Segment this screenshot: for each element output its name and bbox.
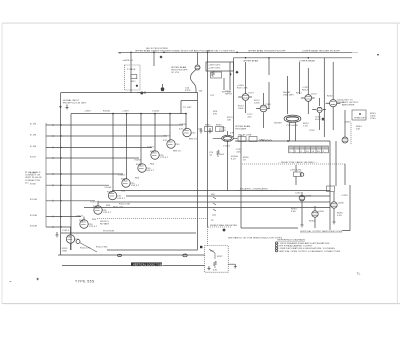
tube V6 bbox=[138, 164, 146, 173]
delay line network components bbox=[238, 137, 246, 142]
wire oval connections bbox=[213, 131, 238, 191]
svg-text:V173: V173 bbox=[248, 93, 254, 95]
node junction dots on bus bbox=[130, 52, 379, 59]
svg-text:UPPER BEAM: UPPER BEAM bbox=[235, 125, 250, 128]
label oval bbox=[274, 123, 298, 128]
svg-text:TYPE 555: TYPE 555 bbox=[75, 279, 94, 283]
wire short drop x154 bbox=[153, 52, 155, 66]
svg-text:R24: R24 bbox=[92, 219, 97, 221]
small box right R244 bbox=[352, 110, 366, 120]
svg-text:B .2M: B .2M bbox=[30, 134, 36, 136]
svg-text:VERTICAL OPEN OUTPUT & FEEDBA: VERTICAL OPEN OUTPUT & FEEDBACK CONNECTO… bbox=[279, 250, 341, 253]
svg-text:V1013: V1013 bbox=[62, 230, 70, 232]
transistor Q295 bbox=[331, 202, 337, 208]
tube V214 bbox=[301, 95, 315, 102]
svg-text:C1040: C1040 bbox=[152, 111, 160, 113]
svg-text:TRIG AMP: TRIG AMP bbox=[235, 128, 247, 131]
ganged dash link bbox=[97, 218, 208, 220]
page top edge bbox=[2, 22, 400, 24]
tube V183 bbox=[256, 105, 270, 112]
wire right of header bbox=[224, 62, 230, 90]
termination resistor row bbox=[198, 127, 224, 132]
svg-text:POSITION: POSITION bbox=[103, 231, 115, 233]
wire drop to dashed box bbox=[130, 52, 132, 92]
pot circle beside V1 bbox=[76, 240, 80, 244]
label right top cluster bbox=[342, 100, 359, 107]
filled square node bbox=[200, 246, 202, 248]
svg-text:Q294: Q294 bbox=[318, 211, 324, 213]
svg-text:220: 220 bbox=[147, 168, 152, 170]
transistor Q replacing bbox=[300, 173, 304, 177]
svg-text:V1083: V1083 bbox=[163, 136, 171, 138]
wire matrix row lines to tubes bbox=[71, 125, 184, 227]
svg-text:47K: 47K bbox=[213, 114, 218, 116]
label clusters panel A bbox=[225, 85, 294, 131]
svg-text:.005: .005 bbox=[236, 152, 241, 154]
wire second header line bbox=[234, 57, 353, 59]
svg-text:LINE DRV: LINE DRV bbox=[283, 95, 294, 97]
node dot bbox=[287, 140, 289, 142]
svg-text:R1121 2M: R1121 2M bbox=[119, 204, 130, 206]
svg-text:DELAY LINE: DELAY LINE bbox=[238, 134, 252, 137]
svg-text:R297: R297 bbox=[217, 256, 223, 258]
cascade right-side value labels bbox=[75, 133, 196, 242]
svg-text:R163: R163 bbox=[136, 164, 142, 166]
svg-text:TO CRT: TO CRT bbox=[183, 107, 192, 109]
tube V7 bbox=[151, 151, 159, 160]
svg-text:+350V: +350V bbox=[84, 111, 91, 113]
wire verticals mid bbox=[241, 135, 330, 230]
svg-text:V1023: V1023 bbox=[76, 216, 84, 218]
resistor R21 zigzag bbox=[212, 71, 215, 77]
svg-text:220: 220 bbox=[117, 196, 122, 198]
svg-text:V1033: V1033 bbox=[90, 202, 98, 204]
svg-text:R1040: R1040 bbox=[103, 111, 111, 113]
inductor bumps bbox=[260, 140, 272, 141]
svg-text:LOWR DECORATORS & REGULATORS,: LOWR DECORATORS & REGULATORS, VOLTAGES bbox=[279, 247, 336, 250]
svg-text:R212: R212 bbox=[296, 93, 302, 95]
tube V2 bbox=[80, 220, 88, 229]
svg-text:Q295: Q295 bbox=[338, 203, 344, 205]
svg-text:B .1M: B .1M bbox=[30, 123, 36, 125]
node riser dots bbox=[112, 113, 187, 115]
svg-text:UPP B HEADLAMPED OUTPUT: UPP B HEADLAMPED OUTPUT bbox=[279, 245, 314, 248]
small ellipse on bottom bus bbox=[118, 254, 122, 256]
svg-text:V1093: V1093 bbox=[179, 124, 187, 126]
node dot in box bbox=[359, 113, 361, 115]
svg-text:B .5M: B .5M bbox=[30, 146, 36, 148]
small cluster on divider bbox=[209, 111, 218, 157]
svg-text:UPPER BEAM SWEEP TRIGGER SIGNA: UPPER BEAM SWEEP TRIGGER SIGNAL SELECTOR… bbox=[135, 49, 210, 52]
svg-text:470: 470 bbox=[179, 129, 184, 131]
tube V3 bbox=[94, 206, 102, 215]
svg-text:B 2M: B 2M bbox=[30, 172, 36, 174]
label clusters panel B bbox=[296, 87, 345, 132]
svg-text:R261: R261 bbox=[205, 125, 211, 127]
svg-text:P GATE: P GATE bbox=[127, 68, 136, 71]
wire outer box top edge bbox=[61, 93, 198, 250]
label transistors bbox=[291, 193, 348, 223]
note line 2 bbox=[275, 245, 277, 247]
row input wires with labels bbox=[46, 125, 71, 227]
connector ticks bbox=[137, 91, 146, 94]
svg-text:.001: .001 bbox=[247, 117, 252, 119]
svg-text:R232: R232 bbox=[327, 96, 333, 98]
svg-text:R1062: R1062 bbox=[219, 130, 227, 132]
tube V1 bbox=[66, 235, 74, 244]
label switch bbox=[210, 251, 223, 272]
svg-text:VERTICAL LOGIC TUBE: VERTICAL LOGIC TUBE bbox=[133, 264, 164, 267]
svg-text:47K: 47K bbox=[230, 133, 235, 135]
header box right side bbox=[206, 62, 234, 71]
ground G3 bbox=[301, 225, 304, 227]
svg-text:R171 47K: R171 47K bbox=[237, 88, 248, 90]
svg-text:DELAYED + UNDELAYED: DELAYED + UNDELAYED bbox=[240, 188, 268, 191]
svg-text:R64: R64 bbox=[150, 164, 155, 166]
table header fill bbox=[289, 146, 329, 149]
svg-text:R1121 SEL: R1121 SEL bbox=[96, 247, 109, 249]
svg-text:ROTATE: ROTATE bbox=[100, 223, 110, 226]
svg-text:V1043: V1043 bbox=[105, 187, 113, 189]
heat sink box bbox=[327, 186, 335, 192]
svg-text:V1073: V1073 bbox=[147, 147, 155, 149]
svg-text:C292: C292 bbox=[295, 193, 301, 195]
label wafer bbox=[211, 194, 216, 222]
svg-text:C63 4.7: C63 4.7 bbox=[146, 170, 155, 172]
svg-text:DELAY: DELAY bbox=[283, 91, 291, 94]
dashed label line mid bbox=[237, 190, 278, 192]
svg-text:T.L.: T.L. bbox=[357, 272, 362, 276]
wire panel A internals bbox=[246, 58, 296, 141]
svg-text:INPUT: INPUT bbox=[225, 94, 233, 96]
svg-text:FROM PLUG-IN UNIT: FROM PLUG-IN UNIT bbox=[63, 103, 87, 105]
svg-text:R54: R54 bbox=[135, 178, 140, 180]
diode D1 bbox=[230, 72, 232, 76]
svg-text:10K: 10K bbox=[227, 120, 232, 122]
svg-text:TERM SET: TERM SET bbox=[354, 118, 366, 120]
svg-text:C43 4.7: C43 4.7 bbox=[117, 198, 126, 200]
svg-text:V193 6DJ8: V193 6DJ8 bbox=[286, 125, 298, 127]
svg-text:B 20M: B 20M bbox=[30, 215, 37, 217]
diamond marker M1b bbox=[235, 71, 238, 74]
svg-text:+225V: +225V bbox=[341, 195, 348, 197]
dark blob component bbox=[322, 118, 325, 121]
svg-text:R83 1K: R83 1K bbox=[173, 151, 181, 153]
label cluster under header bbox=[210, 92, 232, 98]
svg-text:120K: 120K bbox=[254, 103, 260, 105]
svg-text:+100V: +100V bbox=[122, 111, 129, 113]
tube oval V1064 center bbox=[222, 135, 234, 142]
svg-text:R123: R123 bbox=[79, 220, 85, 222]
svg-text:V1053: V1053 bbox=[118, 175, 126, 177]
svg-text:C245: C245 bbox=[370, 118, 376, 120]
small sub box B2 bbox=[211, 72, 222, 78]
svg-text:GND: GND bbox=[62, 251, 67, 253]
label header rows bbox=[208, 64, 221, 69]
svg-text:220: 220 bbox=[89, 224, 94, 226]
svg-text:R93 1K: R93 1K bbox=[189, 139, 197, 141]
table termination chart bbox=[289, 146, 329, 153]
svg-text:R114 47K: R114 47K bbox=[80, 248, 91, 250]
svg-text:8.2K: 8.2K bbox=[231, 159, 236, 161]
tube V5 bbox=[122, 179, 130, 188]
label oval V1064 bbox=[217, 128, 239, 161]
wire right panel outline bbox=[233, 58, 235, 137]
ground pair under spine bbox=[200, 128, 212, 133]
row stub ticks bbox=[52, 124, 54, 228]
wire top trigger bus bbox=[118, 52, 352, 54]
svg-text:C216: C216 bbox=[309, 130, 315, 132]
note line 4 bbox=[275, 250, 277, 252]
wire delay line bus bbox=[235, 140, 330, 142]
svg-text:LOW B PREAMPLIFIER AMP & ATTEN: LOW B PREAMPLIFIER AMP & ATTENUATORS bbox=[279, 242, 330, 245]
note line 3 bbox=[275, 247, 277, 249]
svg-text:22K: 22K bbox=[356, 129, 361, 131]
svg-text:6DJ8: 6DJ8 bbox=[315, 119, 321, 121]
svg-text:470: 470 bbox=[163, 140, 168, 142]
svg-text:PULL ON: PULL ON bbox=[113, 207, 123, 209]
svg-text:L291 T290: L291 T290 bbox=[290, 170, 302, 172]
svg-text:VERTICAL OUTPUT AMPLIFIER V106: VERTICAL OUTPUT AMPLIFIER V1064 bbox=[300, 230, 343, 233]
ground at input bbox=[66, 105, 69, 110]
svg-text:B 1M: B 1M bbox=[30, 156, 36, 158]
right text cluster far bbox=[370, 113, 376, 120]
dash-dot delay cable line bbox=[242, 163, 345, 165]
svg-text:+225V DEC: +225V DEC bbox=[208, 68, 221, 70]
label termination row bbox=[205, 125, 222, 127]
transistor Q294 bbox=[312, 211, 318, 217]
node dot in box bbox=[136, 85, 138, 87]
svg-text:R173: R173 bbox=[150, 151, 156, 153]
wire right column bbox=[302, 141, 350, 231]
coax tube V24 bbox=[195, 65, 200, 70]
svg-text:AMPLIFIER: AMPLIFIER bbox=[342, 104, 355, 107]
svg-text:SIGNAL INPUT: SIGNAL INPUT bbox=[63, 99, 80, 102]
resistor R11 box bbox=[131, 75, 137, 79]
svg-text:R153: R153 bbox=[121, 179, 127, 181]
row labels bbox=[30, 123, 37, 227]
inverted label bar bbox=[131, 262, 162, 266]
svg-text:220: 220 bbox=[192, 133, 197, 135]
svg-text:3.3K: 3.3K bbox=[337, 215, 342, 217]
svg-text:220: 220 bbox=[176, 144, 181, 146]
table text bbox=[289, 151, 324, 153]
tube labels cascade bbox=[62, 124, 187, 232]
labels above inner box bbox=[84, 111, 160, 113]
node arrowhead right end of bus bbox=[352, 51, 358, 53]
svg-text:REFERENCE DIAGRAMS: REFERENCE DIAGRAMS bbox=[278, 239, 306, 242]
page right edge bbox=[396, 23, 398, 304]
wire center vertical divider bbox=[207, 52, 209, 227]
svg-text:CF V24: CF V24 bbox=[171, 72, 180, 74]
svg-text:B 50M: B 50M bbox=[30, 225, 37, 227]
svg-text:R294: R294 bbox=[309, 221, 315, 223]
tube oval V193 delay line driver bbox=[284, 115, 301, 123]
plus mark left bbox=[37, 278, 39, 280]
svg-text:220: 220 bbox=[160, 155, 165, 157]
tube V173 bbox=[238, 94, 252, 101]
inductor box L290 bbox=[294, 172, 302, 177]
svg-text:C33 4.7: C33 4.7 bbox=[103, 212, 112, 214]
svg-text:220: 220 bbox=[103, 210, 108, 212]
svg-text:1K: 1K bbox=[243, 160, 246, 162]
svg-text:C23 4.7: C23 4.7 bbox=[89, 226, 98, 228]
svg-text:100K: 100K bbox=[238, 108, 244, 110]
svg-text:R11: R11 bbox=[132, 81, 137, 83]
page bottom edge bbox=[2, 303, 400, 305]
svg-text:C21: C21 bbox=[210, 95, 215, 97]
text cluster mid matrix bbox=[96, 204, 130, 249]
svg-text:B 5M: B 5M bbox=[30, 184, 36, 186]
small ellipse symbol right bbox=[183, 254, 187, 257]
svg-text:C73 4.7: C73 4.7 bbox=[160, 157, 169, 159]
node dot x154 bbox=[153, 52, 155, 54]
wire coax cable curve bbox=[190, 52, 197, 92]
switch bracket vertical bbox=[45, 123, 47, 227]
transistor Q233 bbox=[326, 100, 341, 107]
tube V224 bbox=[312, 107, 326, 112]
wire panel divider bbox=[323, 58, 325, 137]
wire tube plate risers bbox=[71, 114, 187, 235]
dashed linkage top of box2 bbox=[208, 227, 233, 246]
node circle on top edge bbox=[140, 92, 143, 95]
bottom bus with label bbox=[62, 264, 237, 268]
label 50ohm cable bbox=[171, 66, 203, 93]
wire dashed below box bbox=[350, 123, 352, 145]
diamond marker M1 bbox=[160, 56, 163, 59]
svg-text:47PF: 47PF bbox=[185, 90, 191, 92]
svg-text:47K: 47K bbox=[213, 270, 218, 272]
long output lines bbox=[61, 191, 330, 251]
small mark left2 bbox=[10, 281, 12, 283]
diamond marker M2 bbox=[222, 228, 226, 232]
svg-text:1.5K: 1.5K bbox=[303, 126, 308, 128]
svg-text:V1064: V1064 bbox=[223, 146, 231, 148]
wire diagonal adj bbox=[80, 243, 98, 253]
svg-text:Q293: Q293 bbox=[306, 196, 312, 198]
svg-text:R143: R143 bbox=[107, 192, 113, 194]
svg-text:SW190: SW190 bbox=[274, 123, 282, 125]
label below box bbox=[344, 122, 362, 131]
page left edge bbox=[1, 23, 3, 304]
transistor Q290 bbox=[342, 137, 348, 143]
svg-text:+GATE SEL TO SWP TRIG: +GATE SEL TO SWP TRIG bbox=[206, 49, 235, 52]
svg-text:— DELAY LINE CABLE 186 NSEC —: — DELAY LINE CABLE 186 NSEC — bbox=[278, 161, 318, 164]
ground G2 bbox=[56, 232, 59, 237]
wire inner box bbox=[71, 114, 198, 250]
svg-text:C53 4.7: C53 4.7 bbox=[131, 185, 140, 187]
switch wafer ticks bbox=[212, 197, 216, 215]
tube V9 bbox=[183, 128, 191, 137]
capacitor C11 dashed trigger box bbox=[125, 65, 141, 90]
svg-text:V183: V183 bbox=[265, 104, 271, 106]
sub box top right corner matrix bbox=[181, 101, 198, 114]
node row dots bbox=[60, 124, 61, 227]
ground G4 bbox=[333, 222, 336, 224]
label delay line bbox=[238, 134, 265, 142]
svg-text:220: 220 bbox=[131, 183, 136, 185]
svg-text:+350V DEC: +350V DEC bbox=[208, 64, 221, 66]
label cluster near C290 bbox=[236, 149, 249, 162]
resistor clusters near cascade bbox=[79, 129, 197, 228]
svg-text:SEE PARTS LIST FOR SEMICONDUCT: SEE PARTS LIST FOR SEMICONDUCTOR TYPES bbox=[228, 237, 283, 240]
svg-text:+GATE IN: +GATE IN bbox=[122, 59, 133, 62]
ground G5 bbox=[208, 266, 211, 271]
svg-text:V214: V214 bbox=[311, 94, 317, 96]
svg-text:R34: R34 bbox=[106, 205, 111, 207]
svg-text:R214: R214 bbox=[302, 90, 308, 92]
svg-text:UPPER BEAM: UPPER BEAM bbox=[171, 66, 186, 69]
svg-text:+350V: +350V bbox=[344, 122, 351, 124]
dark connector blob bbox=[161, 87, 165, 91]
svg-text:LOWER BEAM TRIGGER PICKOFF: LOWER BEAM TRIGGER PICKOFF bbox=[302, 49, 341, 52]
note line 1 bbox=[275, 242, 277, 244]
switch internals bbox=[209, 249, 217, 268]
svg-text:B 10M: B 10M bbox=[30, 199, 37, 201]
tube V1 grid resistor cluster bbox=[62, 248, 91, 253]
tube V8 bbox=[167, 140, 175, 149]
svg-text:LOWER BEAM: LOWER BEAM bbox=[299, 60, 315, 63]
svg-text:V1063: V1063 bbox=[134, 160, 142, 162]
svg-text:UPPER BEAM TRIGGER PICKOFF: UPPER BEAM TRIGGER PICKOFF bbox=[248, 49, 286, 52]
wire panel B internals bbox=[300, 62, 346, 137]
diamond at input top bbox=[59, 106, 62, 109]
tube V4 bbox=[108, 191, 116, 200]
resistor vertical near oval bbox=[217, 150, 219, 157]
dashed box 2 switch bbox=[205, 246, 229, 273]
transistor Q293 bbox=[299, 195, 305, 201]
svg-text:6.8K: 6.8K bbox=[291, 211, 296, 213]
wire outer box left and bottom bbox=[58, 93, 205, 255]
svg-text:SWEEP MAG REGISTER: SWEEP MAG REGISTER bbox=[210, 224, 237, 227]
svg-text:R262: R262 bbox=[216, 125, 222, 127]
